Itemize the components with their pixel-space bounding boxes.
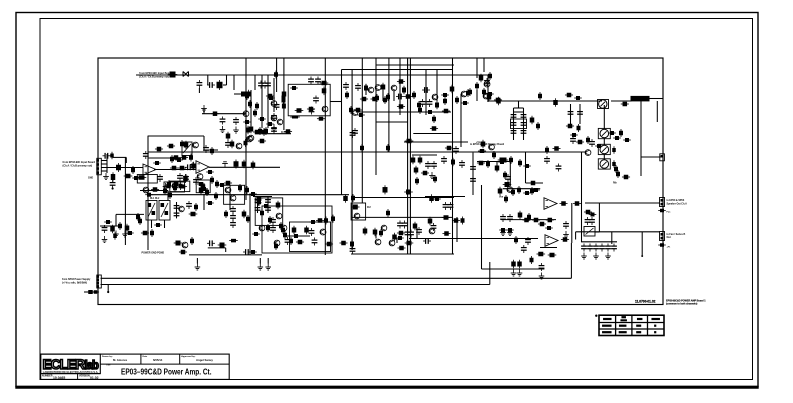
wire <box>203 136 205 150</box>
transistor Q15 <box>247 136 253 142</box>
transistor Q1 <box>243 111 249 117</box>
resistor R234 <box>612 160 616 168</box>
svg-text:Drawn by:: Drawn by: <box>102 356 113 358</box>
connector CN2 supply <box>96 275 101 288</box>
resistor R217 <box>452 218 460 223</box>
capacitor C34 <box>225 140 231 148</box>
resistor R233 <box>612 146 616 154</box>
wire <box>375 58 377 175</box>
resistor R130 <box>249 192 257 196</box>
resistor R53 <box>478 149 486 153</box>
wire <box>147 136 149 250</box>
resistor R56 <box>595 144 603 148</box>
table r1 model <box>602 325 612 327</box>
resistor R176 <box>190 237 194 245</box>
resistor R243 <box>622 175 630 180</box>
wire <box>523 108 525 140</box>
resistor R81 <box>360 144 364 152</box>
resistor R154 <box>283 231 287 239</box>
capacitor C38 <box>157 174 163 182</box>
resistor R61 <box>565 93 573 98</box>
capacitor C73 <box>350 246 356 254</box>
resistor R171 <box>150 229 154 237</box>
wire <box>255 133 291 135</box>
table hdr power2 <box>620 319 627 321</box>
transistor Q17 <box>236 143 242 149</box>
link LK4 housing <box>598 159 610 169</box>
resistor R266 <box>530 256 534 264</box>
resistor R8 <box>258 127 262 135</box>
capacitor C82 <box>556 164 562 172</box>
capacitor C5 <box>271 113 277 121</box>
resistor R63 <box>619 129 623 137</box>
wire <box>101 163 107 165</box>
resistor R20 <box>266 122 274 126</box>
resistor R173 <box>104 220 112 224</box>
wire <box>382 90 384 101</box>
resistor R47 <box>397 104 405 109</box>
op-amp IC3A <box>544 198 557 210</box>
wire <box>513 108 515 140</box>
resistor R73 <box>530 187 534 195</box>
transistor Q33 <box>320 229 326 235</box>
ground <box>581 253 587 260</box>
wire <box>351 197 454 199</box>
resistor R192 <box>279 222 283 230</box>
resistor R64 <box>623 138 631 142</box>
resistor R263 <box>584 210 592 215</box>
capacitor C21 <box>441 156 447 164</box>
resistor R163 <box>260 209 264 217</box>
wire <box>351 253 454 255</box>
wire <box>151 220 153 228</box>
svg-text:+Vcc: +Vcc <box>476 142 482 144</box>
wire <box>413 133 451 135</box>
ground <box>507 229 513 236</box>
svg-text:Date: Date <box>143 355 149 358</box>
resistor R23 <box>322 87 327 96</box>
resistor R51 <box>445 146 453 151</box>
transistor Q23 <box>230 195 236 201</box>
capacitor C97 <box>611 244 617 252</box>
transistor Q3 <box>271 101 277 107</box>
resistor R1 <box>168 72 178 78</box>
resistor R31 <box>402 86 406 95</box>
wire <box>579 104 581 124</box>
capacitor C66 <box>309 228 315 236</box>
resistor R253 <box>527 213 531 221</box>
op-amp IC1B <box>196 161 209 174</box>
resistor R122 <box>164 184 172 189</box>
resistor R10 <box>258 139 266 144</box>
wire <box>250 90 252 126</box>
resistor R164 <box>268 216 272 224</box>
wire <box>167 191 169 201</box>
resistor R78 <box>354 108 362 113</box>
table r2 model <box>602 331 612 333</box>
resistor R39 <box>370 97 378 102</box>
resistor R236 <box>552 146 560 151</box>
link LK2 <box>600 129 609 138</box>
resistor R43 <box>466 89 470 97</box>
resistor R199 <box>289 237 293 245</box>
transistor Q19 <box>172 183 178 189</box>
resistor R231 <box>577 124 581 132</box>
resistor R268 <box>517 260 522 269</box>
resistor R114 <box>251 161 256 170</box>
resistor R123 <box>173 184 177 192</box>
link LK1 <box>599 100 607 108</box>
resistor R195 <box>255 196 263 200</box>
capacitor C30 <box>431 161 437 169</box>
svg-text:EP03–99C&D Power Amp. Ct.: EP03–99C&D Power Amp. Ct. <box>121 367 212 376</box>
resistor R103 <box>111 172 116 182</box>
resistor R196 <box>292 226 297 235</box>
resistor R98 <box>226 132 231 141</box>
resistor R150 <box>242 210 247 219</box>
ground up-symbol <box>222 162 228 168</box>
resistor R239 <box>486 160 490 168</box>
capacitor C17 <box>422 87 430 93</box>
capacitor C94 <box>593 244 599 252</box>
resistor R215 <box>429 194 434 203</box>
wire <box>107 285 109 292</box>
ground <box>605 253 611 260</box>
resistor R59 <box>530 116 535 125</box>
resistor R218 <box>461 216 465 224</box>
resistor R34 <box>468 88 472 96</box>
svg-text:10.0465: 10.0465 <box>53 376 65 380</box>
wire <box>116 213 144 215</box>
wire <box>399 58 401 115</box>
wire <box>233 75 235 90</box>
resistor R118 <box>210 147 214 155</box>
output network loop <box>262 206 332 253</box>
resistor R18 <box>253 109 257 117</box>
resistor R99 <box>172 155 180 160</box>
resistor R198 <box>296 240 304 245</box>
resistor R74 <box>345 91 349 99</box>
resistor R167 <box>118 222 122 230</box>
wire <box>267 258 269 264</box>
table note mark <box>595 315 597 317</box>
resistor R121 <box>145 193 153 197</box>
transistor Q27 <box>381 225 387 231</box>
resistor R141 <box>168 191 172 199</box>
resistor R49 <box>430 126 438 131</box>
capacitor C2 <box>207 82 215 88</box>
resistor R272 <box>658 243 666 247</box>
capacitor C37 <box>110 180 116 188</box>
wire <box>409 58 411 254</box>
connector CN4 output B <box>660 232 665 241</box>
capacitor C89 <box>589 217 595 225</box>
capacitor C95 <box>599 244 605 252</box>
table r2 bias <box>636 331 641 333</box>
wire <box>496 162 498 172</box>
resistor R172 <box>113 232 117 240</box>
capacitor C62 <box>408 230 414 238</box>
wire <box>253 196 272 198</box>
capacitor C92 <box>581 244 587 252</box>
capacitor C19 <box>352 128 358 136</box>
trimmer VR2 <box>584 227 595 237</box>
transistor Q34 <box>259 225 265 231</box>
resistor R91 <box>433 175 437 183</box>
table r1 bias <box>636 325 641 327</box>
capacitor C42 <box>203 145 209 153</box>
resistor R112 <box>234 159 239 168</box>
resistor R241 <box>503 171 507 179</box>
wire <box>525 152 527 183</box>
schematic boundary box <box>98 58 663 305</box>
capacitor C4 <box>265 81 271 89</box>
op-amp IC3B <box>545 235 558 247</box>
transistor Q28 <box>375 239 381 245</box>
svg-text:RL1 RL2: RL1 RL2 <box>150 198 160 200</box>
resistor R166 <box>110 225 115 234</box>
resistor R30 <box>381 83 386 92</box>
resistor R206 <box>309 220 317 224</box>
resistor R94 <box>262 128 266 136</box>
capacitor C29 <box>425 161 431 169</box>
wire <box>324 58 326 255</box>
resistor R191 <box>351 205 360 210</box>
ground <box>511 270 517 277</box>
transistor Q25 <box>281 225 287 231</box>
resistor R75 <box>375 94 379 102</box>
resistor R226 <box>475 82 479 90</box>
wire <box>148 194 349 196</box>
trimmer VR1 <box>182 142 192 156</box>
wire <box>611 232 613 244</box>
resistor R214 <box>428 217 433 226</box>
resistor R202 <box>266 224 270 232</box>
resistor R159 <box>179 185 187 189</box>
resistor R259 <box>532 188 540 192</box>
resistor R220 <box>350 240 354 249</box>
wire <box>472 153 474 195</box>
relay RL2 coil <box>161 203 165 207</box>
wire <box>113 156 127 158</box>
resistor R250 <box>559 201 567 206</box>
wire <box>261 75 263 90</box>
svg-text:11.0700-01.02: 11.0700-01.02 <box>635 299 656 303</box>
resistor R133 <box>170 155 174 163</box>
capacitor C12 <box>343 82 349 90</box>
svg-text:(common to both channels): (common to both channels) <box>666 303 698 306</box>
wire <box>650 98 664 100</box>
ground <box>563 231 569 238</box>
wire <box>460 94 462 147</box>
capacitor C8 <box>315 77 321 85</box>
wire <box>148 135 204 137</box>
resistor R252 <box>518 211 523 220</box>
capacitor C36 <box>103 153 111 159</box>
resistor R5 <box>266 94 274 99</box>
resistor R229 <box>621 102 629 107</box>
resistor R90 <box>421 171 429 176</box>
capacitor C55 <box>285 237 291 245</box>
resistor R38 <box>360 97 368 102</box>
wire <box>285 235 310 237</box>
resistor R76 <box>386 93 390 101</box>
wire <box>487 75 489 102</box>
wire <box>425 70 427 116</box>
wire <box>603 154 605 160</box>
wire <box>375 232 377 239</box>
capacitor C79 <box>521 128 527 136</box>
transistor Q16 <box>197 174 203 180</box>
resistor R54 <box>576 140 584 145</box>
resistor R107 <box>137 175 147 180</box>
resistor R178 <box>249 250 257 254</box>
wire <box>640 101 642 177</box>
resistor R126 <box>210 176 214 184</box>
resistor R267 <box>511 260 516 269</box>
junction <box>112 187 114 189</box>
resistor R194 <box>339 241 347 246</box>
resistor R82 <box>386 144 390 152</box>
output RC box <box>290 222 331 252</box>
capacitor C72 <box>448 202 454 210</box>
wire <box>487 100 602 102</box>
resistor R104 <box>116 163 121 172</box>
table hdr power <box>621 316 626 318</box>
wire <box>514 111 524 113</box>
resistor R37 <box>397 79 405 84</box>
capacitor C88 <box>585 217 591 225</box>
capacitor C54 <box>230 220 236 228</box>
resistor R102 <box>110 152 114 160</box>
capacitor C20 <box>453 146 459 154</box>
resistor R57 <box>608 131 616 135</box>
resistor R110 <box>124 174 133 179</box>
wire <box>207 75 209 85</box>
wire <box>331 101 342 103</box>
wire <box>501 219 556 221</box>
capacitor C80 <box>568 109 574 117</box>
resistor R242 <box>616 170 620 178</box>
resistor R22 <box>320 81 329 86</box>
resistor R46 <box>432 115 436 123</box>
table r2 power <box>619 331 627 333</box>
wire <box>245 75 247 78</box>
ground <box>113 231 119 238</box>
resistor R70 <box>518 159 522 167</box>
wire <box>261 90 263 128</box>
relay RL2 contact <box>161 203 168 217</box>
resistor R97 <box>246 126 251 135</box>
capacitor C86 <box>525 237 531 245</box>
svg-text:Angel Sanuy: Angel Sanuy <box>196 358 213 362</box>
resistor R227 <box>486 92 494 96</box>
resistor R36 <box>443 97 447 105</box>
wire <box>267 90 269 128</box>
transistor Q11 <box>432 94 438 100</box>
wire <box>503 188 540 190</box>
resistor R58 <box>613 136 621 140</box>
resistor R184 <box>363 227 368 236</box>
resistor R55 <box>586 136 590 144</box>
resistor R201 <box>324 216 328 224</box>
resistor R60 <box>536 122 540 130</box>
wire <box>257 196 259 213</box>
transistor Q36 <box>489 144 495 150</box>
wire <box>598 203 600 232</box>
snubber box A <box>170 181 190 192</box>
resistor R224 <box>496 97 501 106</box>
transistor Q22 <box>225 187 231 193</box>
svg-text:Fan: Fan <box>667 212 672 214</box>
capacitor C24 <box>470 176 476 184</box>
resistor R14 <box>255 102 259 110</box>
capacitor C51 <box>265 205 271 213</box>
svg-text:Vbe: Vbe <box>499 197 504 199</box>
resistor R125 <box>201 183 206 192</box>
table hdr model <box>603 318 612 320</box>
svg-text:NUMBER: NUMBER <box>42 374 53 377</box>
resistor R190 <box>351 194 355 202</box>
wire <box>101 277 572 279</box>
table r1 jumper <box>654 325 656 327</box>
resistor R225 <box>553 98 558 107</box>
resistor R50 <box>405 139 414 144</box>
wire <box>595 231 599 233</box>
transistor Q4 <box>271 115 277 121</box>
capacitor C76 <box>511 128 517 136</box>
resistor R160 <box>197 182 205 186</box>
wire <box>124 157 126 245</box>
capacitor C35 <box>143 151 149 159</box>
resistor R235 <box>614 165 618 173</box>
wire <box>603 138 605 145</box>
transistor Q8 <box>391 85 397 91</box>
resistor R216 <box>433 197 441 201</box>
resistor R95 <box>284 129 292 134</box>
resistor R41 <box>404 94 412 99</box>
wire <box>396 239 398 244</box>
title block logo cell <box>41 354 101 374</box>
wire <box>249 195 251 255</box>
svg-text:POWER GND PGND: POWER GND PGND <box>142 252 165 255</box>
relay RL1 <box>146 201 157 221</box>
svg-text:LABORATORIO DE ELECTRO-ACUSTIC: LABORATORIO DE ELECTRO-ACUSTICA S.A. <box>43 370 99 374</box>
wire <box>189 74 246 76</box>
resistor R238 <box>477 161 485 166</box>
resistor R260 <box>504 195 508 203</box>
capacitor C61 <box>405 230 411 238</box>
resistor R4 <box>246 90 251 99</box>
capacitor C77 <box>521 112 527 120</box>
resistor R28 <box>317 117 325 121</box>
resistor R113 <box>242 160 247 169</box>
resistor R77 <box>412 91 416 99</box>
resistor R251 <box>573 201 581 206</box>
wire <box>365 84 367 95</box>
resistor R142 <box>214 192 218 200</box>
wire <box>412 154 437 156</box>
resistor R174 <box>138 217 142 225</box>
op-amp IC1A <box>143 164 156 175</box>
transistor Q31 <box>354 213 360 219</box>
resistor R246 <box>545 146 549 154</box>
wire <box>436 70 438 102</box>
link LK3 <box>600 145 609 154</box>
resistor R40 <box>383 96 387 104</box>
resistor R96 <box>211 111 219 116</box>
capacitor C83 <box>544 156 550 164</box>
